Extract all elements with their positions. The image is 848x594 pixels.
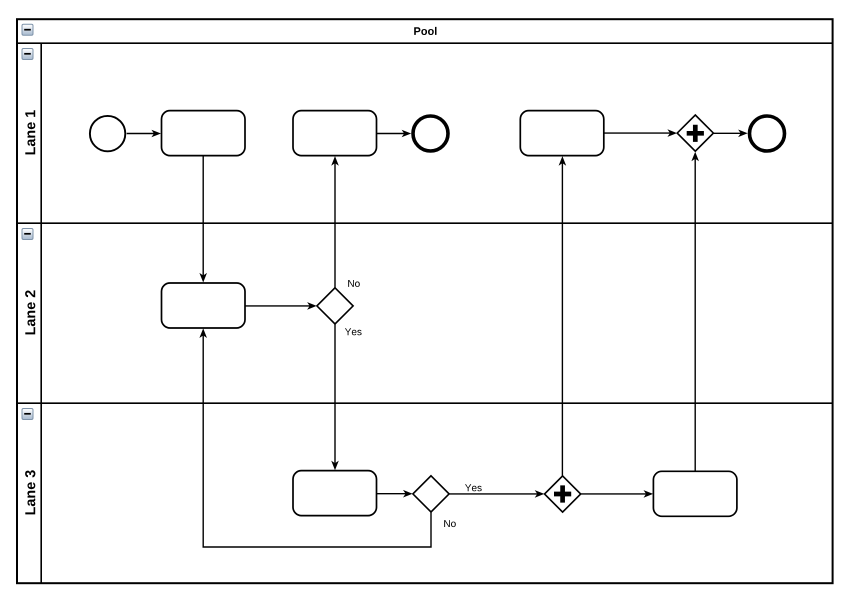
pool collapse button [22,24,33,35]
wire task E to gateway 3 [377,490,413,498]
gateway 4 (parallel) [545,476,581,512]
start event [90,116,125,151]
task B [293,111,377,156]
label Yes (gateway 2 south) [345,328,362,335]
wire task F to gateway 1 [691,152,699,472]
lane 3 title [25,470,35,514]
wire task C to gateway 1 [604,129,677,137]
wire gateway 2 to task E [331,324,339,470]
wire gateway 4 to task F [581,490,653,498]
wire task D to gateway 2 [245,302,317,310]
task C [520,111,604,156]
lane Lane 2 [17,223,833,403]
task F [653,471,737,516]
wire gateway 2 to task B [331,156,339,288]
end event 2 [750,116,785,151]
lane 1 title [25,110,35,154]
lane 2 collapse button [22,229,33,240]
task E [293,471,377,516]
task A [162,111,246,156]
wire start event to task A [127,130,161,138]
wire gateway 1 to end event 2 [713,130,747,138]
label No (gateway 3 south) [444,520,456,527]
wire task B to end event 1 [377,130,411,138]
lane 1 collapse button [22,49,33,60]
label Yes (gateway 3 east) [465,484,482,491]
lane 3 collapse button [22,409,33,420]
gateway 2 (exclusive) [317,288,353,324]
wire gateway 3 to gateway 4 [449,490,544,498]
gateway 3 (exclusive) [413,476,449,512]
end event 1 [413,116,448,151]
lane Lane 3 [17,403,833,583]
pool title Pool [414,27,436,35]
task D [162,283,246,328]
wire gateway 4 to task C [559,156,567,476]
wire task A to task D [199,156,207,283]
lane 2 title [25,290,35,334]
gateway 1 (parallel) [677,115,713,151]
lane Lane 1 [40,43,42,223]
wire gateway 3 loop back to task D [199,328,431,547]
label No (gateway 2 north) [348,280,360,287]
